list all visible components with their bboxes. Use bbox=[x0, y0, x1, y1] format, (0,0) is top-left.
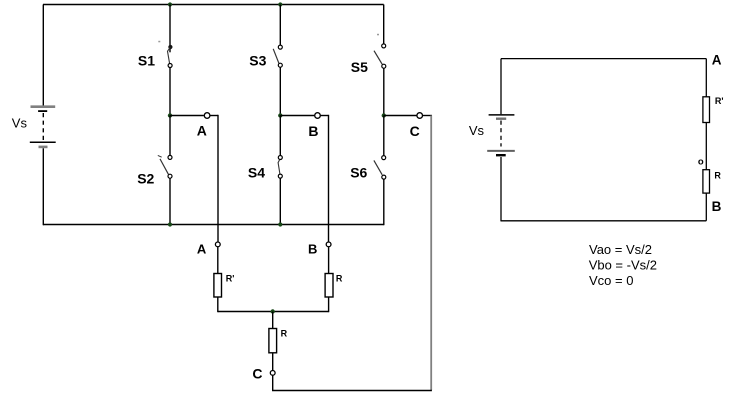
switch S4 top contact bbox=[278, 156, 282, 160]
battery Vs right: long black plate bbox=[489, 114, 515, 116]
switch S2 wire from node A bbox=[169, 116, 171, 156]
resistor R right circuit bbox=[703, 170, 710, 193]
svg-text:B: B bbox=[308, 242, 317, 257]
battery Vs left: long black plate bbox=[30, 141, 56, 143]
wire A drop to lower terminal bbox=[217, 115, 219, 242]
switch S1 bottom contact bbox=[168, 64, 172, 68]
wire right circuit right vertical upper bbox=[705, 59, 707, 97]
battery Vs left: long gray plate bbox=[31, 105, 56, 108]
resistor R phase B bbox=[325, 274, 333, 298]
switch S2 top contact bbox=[168, 155, 172, 159]
wire node A circle to corner bbox=[210, 115, 218, 117]
wire node C circle to corner bbox=[423, 115, 432, 117]
switch S2 tick bbox=[158, 155, 162, 157]
wire S3 to node B bbox=[279, 67, 281, 115]
wire S1 branch from top rail bbox=[169, 5, 171, 53]
svg-text:S4: S4 bbox=[248, 164, 265, 180]
switch S5 stray speck bbox=[377, 34, 379, 36]
wire S4 to bottom rail bbox=[279, 178, 281, 224]
wire left vertical lower bbox=[42, 148, 44, 225]
svg-text:Vbo = -Vs/2: Vbo = -Vs/2 bbox=[589, 258, 657, 273]
junction star point bbox=[271, 309, 275, 313]
wire S5 branch from top rail bbox=[383, 5, 385, 44]
switch S2 bottom contact bbox=[168, 174, 172, 178]
wire R' to star bus bbox=[217, 297, 219, 312]
wire S6 to bottom rail bbox=[383, 179, 385, 225]
terminal C circle bbox=[270, 371, 275, 376]
junction top rail at S3 branch bbox=[278, 2, 282, 6]
battery Vs right: dashed cell link bbox=[500, 121, 502, 147]
switch S3 lever (open) bbox=[273, 49, 279, 64]
switch S5 lever (open) bbox=[374, 51, 382, 65]
switch S4 bottom contact bbox=[278, 174, 282, 178]
switch S6 lever (open) bbox=[374, 160, 382, 174]
node B terminal circle bbox=[315, 113, 321, 119]
switch S6 wire from node C bbox=[383, 116, 385, 156]
terminal A circle lower bbox=[215, 242, 220, 247]
battery Vs right: short gray plate bbox=[496, 117, 506, 119]
battery Vs left: dashed cell link bbox=[42, 113, 44, 141]
svg-text:A: A bbox=[712, 52, 722, 67]
wire B drop to lower terminal bbox=[328, 115, 330, 242]
junction bottom rail at S4 branch bbox=[278, 222, 282, 226]
wire C terminal down bbox=[272, 376, 274, 391]
svg-text:S5: S5 bbox=[351, 59, 368, 75]
wire S3 branch from top rail bbox=[279, 5, 281, 46]
junction node A bbox=[168, 113, 172, 117]
terminal B circle lower bbox=[326, 242, 331, 247]
wire resistor C to terminal bbox=[272, 353, 274, 371]
wire B terminal to resistor bbox=[328, 247, 330, 273]
wire C return bottom horizontal bbox=[272, 390, 432, 392]
wire node B horizontal bbox=[280, 115, 314, 117]
switch S1 stray speck bbox=[158, 41, 160, 43]
junction node B bbox=[278, 113, 282, 117]
wire R to star bus bbox=[328, 297, 330, 312]
wire A terminal to resistor bbox=[217, 247, 219, 273]
resistor R' right circuit bbox=[703, 97, 710, 123]
svg-text:Vao = Vs/2: Vao = Vs/2 bbox=[589, 242, 652, 257]
svg-text:Vs: Vs bbox=[12, 115, 28, 130]
svg-text:R': R' bbox=[715, 96, 724, 106]
wire bottom rail main circuit bbox=[43, 224, 384, 226]
svg-text:o: o bbox=[698, 157, 704, 168]
wire node C horizontal bbox=[384, 115, 417, 117]
svg-text:S2: S2 bbox=[137, 171, 154, 187]
wire S1 to node A bbox=[169, 68, 171, 116]
wire right circuit right vertical lower bbox=[705, 193, 707, 221]
svg-text:C: C bbox=[252, 366, 262, 382]
svg-text:R': R' bbox=[226, 274, 235, 284]
wire node B circle to corner bbox=[321, 115, 329, 117]
battery Vs right: long gray plate bbox=[487, 150, 515, 152]
wire S2 to bottom rail bbox=[169, 178, 171, 224]
svg-text:Vs: Vs bbox=[469, 123, 485, 138]
switch S6 bottom contact bbox=[382, 175, 386, 179]
wire star bus horizontal bbox=[218, 311, 329, 313]
node A terminal circle bbox=[204, 113, 210, 119]
wire C return vertical (gray) bbox=[430, 116, 432, 391]
junction node C bbox=[382, 113, 386, 117]
switch S1 lever (closed) bbox=[168, 47, 171, 63]
node C terminal circle bbox=[417, 113, 423, 119]
svg-text:S3: S3 bbox=[249, 52, 266, 68]
svg-text:C: C bbox=[410, 123, 420, 139]
switch S4 wire from node B bbox=[279, 116, 281, 156]
wire right circuit left vertical lower bbox=[500, 157, 502, 221]
svg-text:B: B bbox=[308, 123, 318, 139]
junction bottom rail at S2 branch bbox=[168, 222, 172, 226]
switch S1 top contact dot bbox=[168, 45, 172, 49]
svg-text:S1: S1 bbox=[138, 52, 155, 68]
wire right circuit bottom rail bbox=[501, 220, 706, 222]
battery Vs left: short black plate bbox=[38, 110, 47, 112]
battery Vs left: short gray plate bbox=[39, 146, 48, 149]
svg-text:R: R bbox=[714, 171, 721, 181]
switch S5 top contact bbox=[382, 44, 386, 48]
svg-text:R: R bbox=[336, 274, 343, 284]
junction top rail at S1 branch bbox=[168, 2, 172, 6]
switch S6 top contact bbox=[382, 156, 386, 160]
resistor R phase C bbox=[269, 329, 277, 353]
svg-text:Vco = 0: Vco = 0 bbox=[589, 273, 633, 288]
wire right circuit top rail bbox=[501, 58, 706, 60]
svg-text:A: A bbox=[197, 242, 207, 257]
switch S3 top contact bbox=[278, 45, 282, 49]
wire right circuit left vertical upper bbox=[500, 59, 502, 115]
wire node A horizontal bbox=[170, 115, 204, 117]
wire left vertical upper (to battery) bbox=[42, 5, 44, 106]
switch S2 lever (open) bbox=[160, 159, 168, 174]
battery Vs right: short black plate bbox=[496, 154, 506, 156]
switch S5 bottom contact bbox=[382, 64, 386, 68]
resistor R' phase A bbox=[214, 274, 222, 298]
wire S5 to node C bbox=[383, 68, 385, 115]
wire star to resistor C bbox=[272, 312, 274, 329]
svg-text:R: R bbox=[281, 329, 288, 339]
wire top rail main circuit bbox=[43, 4, 384, 6]
switch S3 bottom contact bbox=[278, 63, 282, 67]
switch S4 lever (closed) bbox=[278, 160, 280, 174]
svg-text:B: B bbox=[712, 199, 722, 214]
svg-text:S6: S6 bbox=[350, 164, 367, 180]
svg-text:A: A bbox=[197, 123, 207, 139]
wire between R' and R right circuit bbox=[705, 123, 707, 170]
